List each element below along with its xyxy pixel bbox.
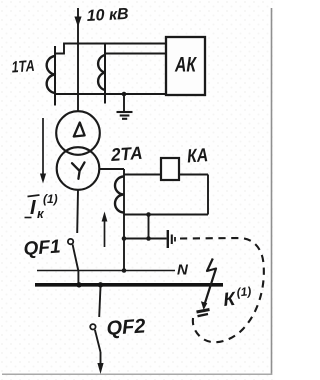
wire: QF2 outgoing feeder (100, 352, 102, 364)
fault lightning arrow at K(1) (205, 259, 216, 304)
dashed fault-current path loop (180, 238, 264, 342)
junction: ground bus at 2TA vertical (122, 236, 127, 241)
label Iк(1) with overbar (28, 195, 40, 197)
svg-text:QF2: QF2 (106, 315, 146, 340)
current transformer 1TA phase C primary stub (104, 44, 106, 104)
wire: common return of 1TA secondaries to AK (55, 93, 166, 95)
svg-text:I: I (30, 197, 36, 219)
current transformer 1TA phase A secondary arcs (47, 56, 55, 93)
current arrow Iк(1) (42, 118, 44, 176)
junction: ground bus tap (146, 236, 151, 241)
wire: ground tap drop (123, 94, 125, 112)
current transformer 2TA secondary arcs (115, 177, 124, 213)
wire: 1TA phase C secondary to AK (105, 53, 166, 55)
ground symbol (1TA secondary) (117, 112, 133, 119)
wire: 10 kV supply feeder vertical (77, 8, 79, 112)
wire: 2TA secondary top to relay KA (124, 174, 161, 176)
border frame right (271, 8, 273, 375)
svg-text:(1): (1) (43, 192, 58, 206)
current transformer 1TA phase A primary stub (54, 46, 56, 106)
border frame bottom (2, 373, 272, 375)
fault point earth marks (197, 310, 210, 313)
wire: QF1 to bus (77, 271, 79, 285)
wire: transformer secondary to 2TA feeder (100, 168, 125, 170)
wire: KA to loop right side (179, 174, 208, 176)
svg-text:КА: КА (186, 145, 208, 167)
transformer T1 primary winding (delta) circle (56, 111, 100, 155)
svg-text:N: N (177, 262, 189, 279)
circuit breaker QF2 contact (90, 324, 95, 329)
junction: return wire ground tap (122, 92, 127, 97)
relay AK (overcurrent protection) (166, 37, 205, 95)
svg-text:2ТА: 2ТА (109, 143, 143, 165)
current direction arrow in feeder (104, 218, 106, 247)
wire: ground bus horizontal (124, 238, 167, 240)
junction: 2TA vertical on N wire (122, 268, 127, 273)
svg-text:10 кВ: 10 кВ (86, 6, 129, 25)
wye (star) symbol (72, 162, 85, 178)
junction: QF1 at bus (76, 282, 81, 287)
current transformer 1TA phase C secondary arcs (98, 55, 105, 90)
wire: loop right side down (207, 175, 209, 215)
relay KA coil box (161, 158, 179, 180)
bus bar (35, 283, 223, 287)
wire: 2TA secondary return (124, 214, 208, 216)
ground symbol (2TA secondary, rotated) (168, 230, 175, 248)
svg-text:1ТА: 1ТА (11, 58, 35, 77)
transformer T1 secondary winding (wye) circle (57, 147, 100, 190)
wire: transformer to QF1 (76, 190, 79, 233)
svg-text:(1): (1) (236, 284, 252, 299)
wire: tap drop to ground bus (148, 215, 150, 239)
svg-text:АК: АК (174, 54, 197, 77)
junction: return wire tap (146, 212, 151, 217)
wire: bus to QF2 (99, 287, 100, 318)
svg-text:QF1: QF1 (23, 236, 61, 260)
supply arrow head (incoming 10 kV) (74, 17, 81, 28)
outgoing feeder arrow head (97, 363, 103, 374)
node N: secondary neutral wire (37, 270, 175, 272)
junction: QF2 feeder at bus (98, 282, 103, 287)
wire: 1TA phase A secondary to AK (step up) (55, 44, 166, 54)
circuit breaker QF1 contact (68, 239, 73, 244)
current transformer 2TA primary vertical (123, 169, 125, 271)
delta symbol (74, 123, 85, 137)
